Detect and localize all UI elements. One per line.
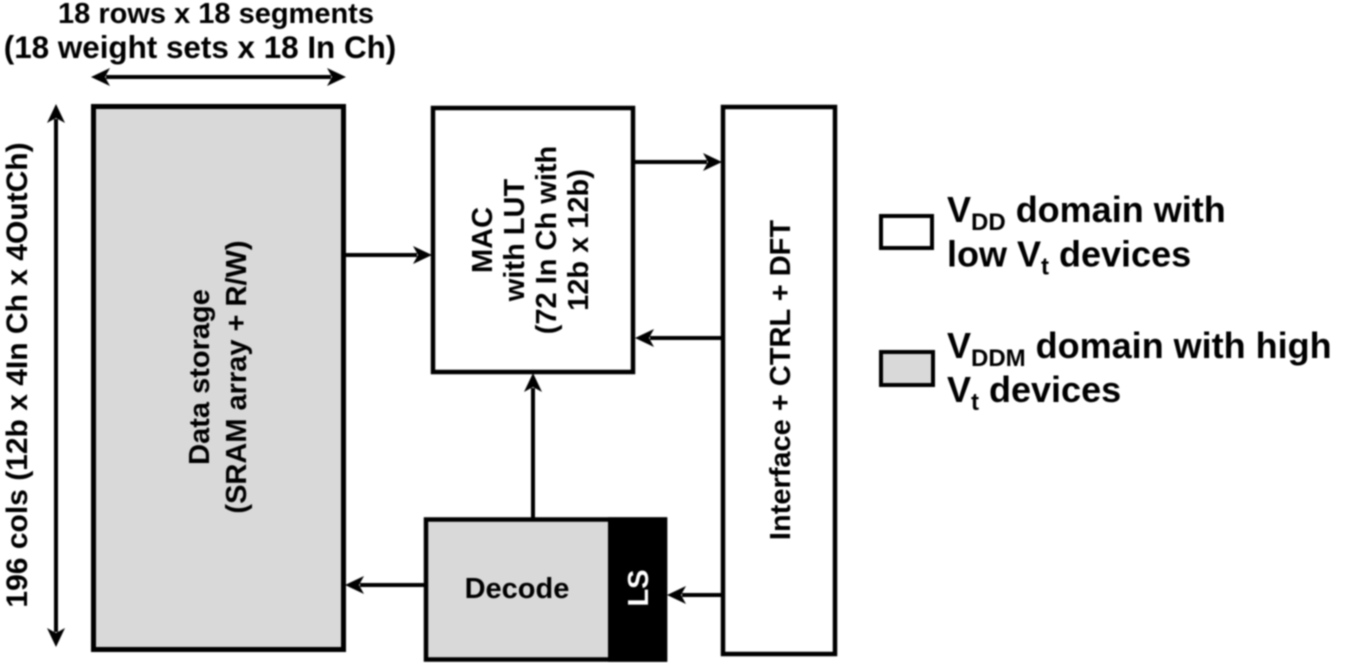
- block: Interface + CTRL + DFT: [723, 107, 835, 654]
- wire: Decode -> MAC (vertical): [524, 373, 542, 519]
- svg-text:12b x 12b): 12b x 12b): [563, 169, 595, 311]
- label: LS: [623, 569, 655, 606]
- label: Data storage (SRAM array + R/W): [184, 240, 253, 513]
- svg-text:Interface + CTRL + DFT: Interface + CTRL + DFT: [765, 220, 797, 540]
- svg-text:with LUT: with LUT: [499, 179, 531, 303]
- label: Interface + CTRL + DFT: [765, 220, 797, 540]
- block: LS (level shifter, black): [608, 517, 667, 662]
- label: 196 cols (12b x 4In Ch x 4OutCh): [1, 142, 34, 607]
- wire: Data storage -> MAC: [345, 246, 432, 264]
- svg-text:Data storage: Data storage: [184, 289, 216, 465]
- wire: MAC -> Interface: [634, 153, 722, 171]
- legend box: VDD domain (white): [881, 216, 932, 248]
- svg-text:(18 weight sets x 18 In Ch): (18 weight sets x 18 In Ch): [4, 30, 397, 65]
- svg-text:low Vt devices: low Vt devices: [947, 234, 1191, 281]
- wire: Interface -> LS: [667, 586, 722, 604]
- svg-text:(72 In Ch with: (72 In Ch with: [531, 146, 563, 335]
- svg-text:196 cols (12b x 4In Ch x 4OutC: 196 cols (12b x 4In Ch x 4OutCh): [1, 142, 34, 607]
- wire: Decode -> Data storage: [345, 576, 425, 594]
- svg-text:18 rows x 18 segments: 18 rows x 18 segments: [58, 0, 374, 30]
- svg-text:Decode: Decode: [465, 573, 570, 605]
- svg-text:(SRAM array + R/W): (SRAM array + R/W): [221, 240, 253, 513]
- legend box: VDDM domain (gray): [881, 352, 933, 385]
- top horizontal double arrow: [91, 68, 346, 86]
- svg-text:MAC: MAC: [467, 207, 499, 273]
- svg-text:LS: LS: [623, 569, 655, 606]
- block: Decode: [426, 520, 665, 660]
- wire: Interface -> MAC: [635, 329, 722, 347]
- block: MAC: [433, 108, 633, 372]
- label: MAC with LUT (72 In Ch with 12b x 12b): [467, 146, 595, 335]
- left vertical double arrow: [47, 104, 65, 647]
- block: Data storage: [94, 107, 344, 650]
